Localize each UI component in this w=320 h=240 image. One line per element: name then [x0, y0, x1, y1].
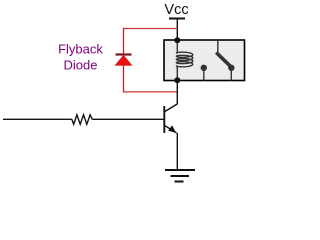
wire input to resistor: [3, 118, 72, 120]
wire Vcc rail to relay top node: [176, 19, 178, 41]
junction dot coil bottom: [174, 77, 180, 83]
relay contact lead left: [203, 68, 205, 81]
relay switch common lead: [217, 41, 219, 53]
relay coil L1 windings: [176, 52, 192, 67]
relay coil L1 lead top: [176, 40, 178, 53]
wire red diode anode vertical: [123, 65, 125, 93]
relay coil lead bottom: [176, 66, 178, 81]
power rail bar Vcc: [169, 18, 185, 20]
diode D1 anode triangle: [115, 56, 131, 66]
relay switch moving contact dot: [228, 65, 234, 71]
diode D1 cathode bar: [116, 53, 132, 55]
svg-text:Vcc: Vcc: [164, 2, 188, 18]
junction dot coil top: [174, 37, 180, 43]
relay K1 body: [164, 40, 245, 81]
svg-text:Flyback: Flyback: [58, 42, 103, 57]
wire red diode anode to collector node (bottom): [124, 91, 178, 93]
relay switch arm: [216, 53, 231, 67]
relay fixed contact dot left: [201, 65, 207, 71]
relay contact lead right (NO): [230, 68, 232, 81]
wire emitter to ground: [176, 133, 178, 170]
transistor Q1 collector lead: [165, 104, 178, 112]
transistor Q1 base bar: [163, 106, 165, 133]
resistor R1: [72, 115, 93, 125]
wire relay to collector: [176, 80, 178, 104]
label Flyback Diode: [58, 42, 103, 73]
wire red diode cathode vertical: [123, 28, 125, 55]
transistor Q1 emitter arrow: [168, 125, 176, 133]
wire resistor to base: [92, 118, 163, 120]
svg-text:Diode: Diode: [64, 58, 98, 73]
ground symbol: [165, 170, 195, 182]
wire red Vcc node to diode cathode (top): [124, 28, 178, 30]
transistor Q1 emitter lead: [165, 126, 177, 133]
